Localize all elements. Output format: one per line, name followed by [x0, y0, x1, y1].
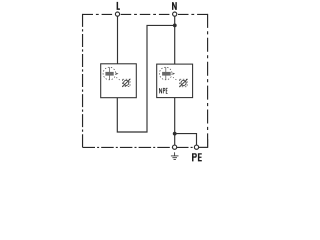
disconnector arrow (left)	[116, 73, 118, 75]
label L	[117, 2, 120, 10]
wire junction to PE terminal	[175, 134, 197, 146]
dashed actuation link (left)	[116, 77, 120, 80]
enclosure dash-dot border bottom	[83, 146, 209, 148]
fault indicator slash (right)	[179, 79, 187, 87]
terminal earth	[173, 145, 177, 149]
junction node PE	[173, 132, 177, 136]
wire NPE module bottom to earth terminal	[174, 98, 176, 146]
wire PE terminal to enclosure corner	[199, 139, 208, 147]
thermal disconnector dashed circle (left)	[103, 67, 116, 80]
fault indicator slash (left)	[122, 79, 130, 87]
SPD module box right (N-PE gap, NPE)	[157, 64, 193, 98]
terminal PE	[194, 145, 198, 149]
terminal L	[115, 12, 119, 16]
SPD module box left (L-N varistor)	[101, 64, 137, 98]
dashed actuation link (right)	[173, 77, 178, 81]
label PE	[192, 153, 197, 161]
wire L terminal to left module	[117, 16, 119, 64]
fault indicator circle (right)	[181, 80, 186, 85]
label N	[172, 2, 177, 10]
ground	[171, 152, 179, 159]
enclosure dash-dot border top	[83, 13, 209, 15]
enclosure dash-dot border left	[82, 14, 84, 148]
varistor element filled rect (left)	[105, 72, 113, 76]
fault indicator circle (left)	[124, 80, 129, 85]
wire N terminal to NPE module	[174, 16, 176, 64]
label NPE	[159, 88, 167, 93]
fault indicator dashes square (right)	[180, 79, 187, 86]
fault indicator dashes square (left)	[123, 79, 130, 86]
enclosure dash-dot border right	[207, 14, 209, 148]
terminal N	[173, 12, 177, 16]
spark gap element filled rect (right)	[162, 72, 171, 76]
electrode line through disconnector (left)	[109, 67, 111, 80]
electrode line through disconnector (right)	[165, 67, 167, 80]
junction node N	[173, 24, 177, 28]
disconnector arrow (right)	[173, 73, 175, 75]
wire branch N junction to left module bottom	[117, 25, 174, 132]
thermal disconnector dashed circle (right)	[159, 67, 172, 80]
